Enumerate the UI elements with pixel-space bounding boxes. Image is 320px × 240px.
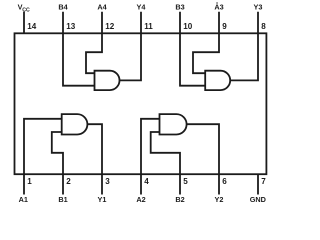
svg-text:Y1: Y1 bbox=[98, 195, 107, 204]
svg-text:Y4: Y4 bbox=[137, 3, 147, 12]
svg-text:A1: A1 bbox=[19, 195, 28, 204]
svg-text:5: 5 bbox=[183, 177, 188, 186]
svg-text:7: 7 bbox=[261, 177, 266, 186]
svg-text:6: 6 bbox=[222, 177, 227, 186]
svg-text:11: 11 bbox=[144, 22, 153, 31]
svg-text:2: 2 bbox=[66, 177, 71, 186]
svg-text:B4: B4 bbox=[58, 3, 68, 12]
svg-text:B1: B1 bbox=[58, 195, 67, 204]
svg-text:9: 9 bbox=[222, 22, 227, 31]
svg-text:12: 12 bbox=[105, 22, 115, 31]
svg-text:A4: A4 bbox=[97, 3, 107, 12]
svg-text:B2: B2 bbox=[175, 195, 184, 204]
svg-text:13: 13 bbox=[66, 22, 76, 31]
svg-text:Y2: Y2 bbox=[215, 195, 224, 204]
svg-text:B3: B3 bbox=[175, 3, 184, 12]
svg-text:A2: A2 bbox=[136, 195, 145, 204]
svg-text:Y3: Y3 bbox=[254, 3, 263, 12]
svg-text:GND: GND bbox=[250, 195, 266, 204]
svg-text:14: 14 bbox=[27, 22, 37, 31]
svg-text:A3: A3 bbox=[214, 3, 223, 12]
svg-text:8: 8 bbox=[261, 22, 266, 31]
svg-text:4: 4 bbox=[144, 177, 149, 186]
svg-text:10: 10 bbox=[183, 22, 193, 31]
svg-text:3: 3 bbox=[105, 177, 110, 186]
svg-text:1: 1 bbox=[27, 177, 32, 186]
svg-text:CC: CC bbox=[22, 8, 30, 14]
